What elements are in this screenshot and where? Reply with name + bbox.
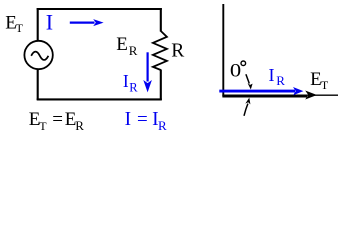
svg-text:E: E [116, 34, 128, 55]
phasor I_R arrow (blue) [219, 90, 295, 93]
svg-text:R: R [158, 118, 167, 133]
current arrow I top wire [70, 22, 95, 24]
svg-text:T: T [16, 21, 24, 35]
wire top [37, 8, 162, 10]
svg-text:R: R [75, 118, 84, 133]
AC source circle [24, 41, 52, 69]
svg-text:I: I [123, 71, 129, 91]
wire bottom [37, 98, 162, 100]
svg-text:R: R [276, 73, 285, 88]
AC source sine wave [31, 52, 48, 60]
current arrow I_R down resistor [147, 52, 149, 81]
angle arrow lower (points up to phasors) [244, 104, 248, 116]
svg-text:T: T [321, 78, 329, 92]
angle arrow upper (points down to phasors) [246, 74, 249, 83]
wire left lower [37, 69, 39, 100]
svg-text:R: R [129, 80, 138, 94]
svg-text:R: R [129, 43, 138, 58]
wire right lower [160, 70, 162, 101]
svg-text:T: T [39, 119, 47, 133]
svg-text:I: I [269, 65, 275, 85]
resistor R zigzag [153, 31, 167, 70]
svg-text:I: I [125, 109, 132, 130]
phasor horizontal axis thin line [222, 94, 338, 96]
svg-text:0: 0 [230, 60, 241, 81]
svg-text:I: I [46, 9, 53, 34]
svg-text:R: R [171, 41, 184, 62]
svg-text:=: = [52, 109, 63, 130]
svg-text:=: = [137, 109, 148, 130]
phasor vertical axis [222, 4, 224, 97]
wire right upper [160, 8, 162, 32]
phasor E_T arrow (black) [222, 95, 307, 98]
wire left upper [37, 8, 39, 41]
